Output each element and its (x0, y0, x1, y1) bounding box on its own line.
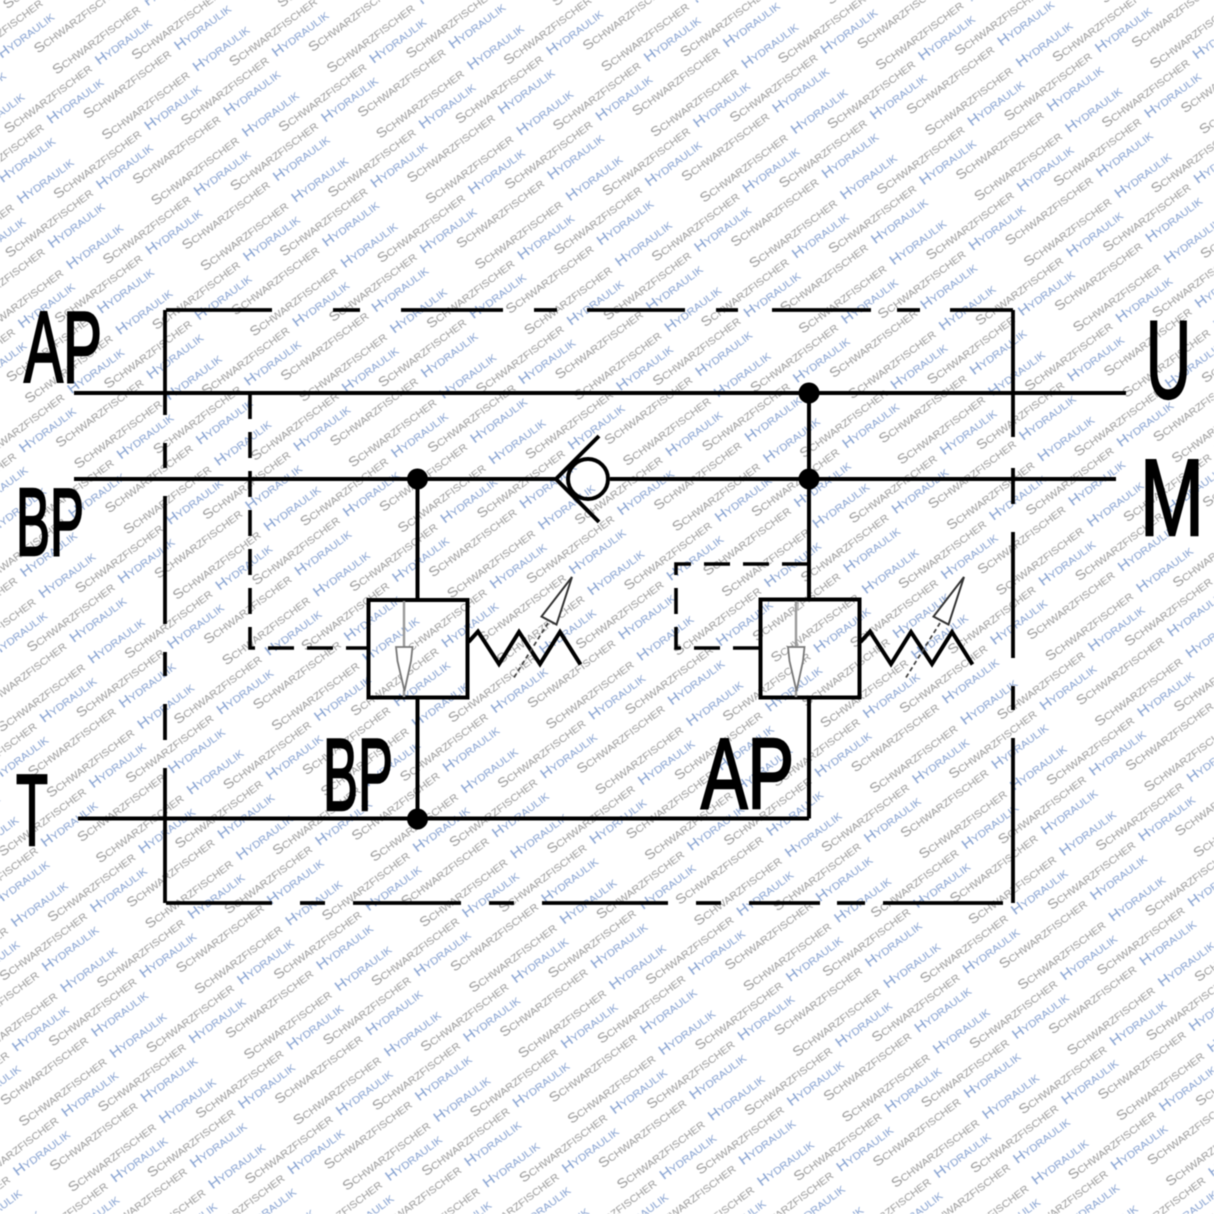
svg-text:AP: AP (24, 292, 102, 404)
svg-text:U: U (1146, 299, 1191, 422)
svg-text:AP: AP (701, 718, 794, 830)
svg-text:BP: BP (16, 469, 84, 576)
svg-text:M: M (1140, 437, 1204, 559)
svg-text:BP: BP (323, 718, 393, 832)
svg-text:T: T (16, 755, 48, 867)
